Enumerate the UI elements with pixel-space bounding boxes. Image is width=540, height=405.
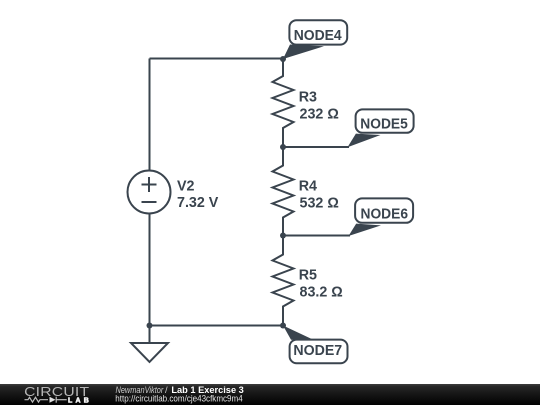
svg-text:83.2 Ω: 83.2 Ω — [300, 284, 343, 300]
svg-text:232 Ω: 232 Ω — [300, 106, 339, 122]
svg-text:V2: V2 — [177, 179, 195, 195]
svg-text:R3: R3 — [299, 89, 317, 105]
svg-text:7.32 V: 7.32 V — [177, 195, 219, 211]
svg-text:http://circuitlab.com/cje43cfk: http://circuitlab.com/cje43cfkmc9m4 — [115, 394, 242, 404]
svg-text:532 Ω: 532 Ω — [300, 196, 339, 212]
svg-text:R4: R4 — [299, 179, 317, 195]
svg-text:R5: R5 — [299, 268, 317, 284]
svg-text:LAB: LAB — [68, 397, 92, 404]
svg-text:NODE4: NODE4 — [294, 28, 342, 44]
svg-text:NODE6: NODE6 — [361, 207, 409, 223]
svg-text:NODE5: NODE5 — [360, 117, 408, 133]
svg-text:NODE7: NODE7 — [293, 343, 342, 359]
